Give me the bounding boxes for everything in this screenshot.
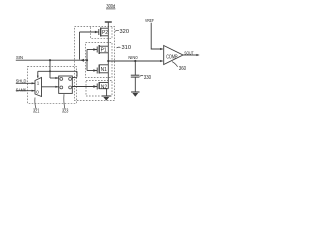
SHLD wire	[16, 82, 35, 84]
SHLD label	[16, 78, 27, 84]
gate tie wire P1-N1	[86, 50, 88, 71]
transistor N1	[93, 65, 108, 74]
svg-text:VREF: VREF	[145, 18, 154, 24]
mux output wire	[42, 86, 59, 88]
label 321	[35, 98, 36, 109]
svg-text:1: 1	[37, 80, 40, 85]
transistor P1	[93, 45, 108, 54]
svg-text:320: 320	[120, 29, 130, 35]
wire NIN0 to comparator	[108, 60, 162, 62]
wire N2 to ground	[106, 89, 108, 96]
wire to latch clock with jog	[76, 71, 78, 76]
wire SIN down to latch D input	[49, 60, 51, 78]
svg-text:NIN0: NIN0	[128, 55, 137, 61]
svg-text:360: 360	[179, 66, 186, 72]
NIN0 label	[128, 55, 137, 61]
capacitor C 330	[134, 61, 136, 75]
label 360	[172, 62, 178, 67]
junction dot SIN/gate tie	[86, 59, 88, 61]
SAMK label	[16, 87, 27, 93]
power supply T bar	[105, 21, 112, 23]
svg-text:P2: P2	[102, 30, 108, 36]
svg-text:P1: P1	[101, 47, 107, 53]
label 330	[140, 75, 144, 78]
figure label 300d	[106, 4, 115, 10]
wire N1 to N2	[107, 73, 109, 83]
junction dot cap	[134, 60, 136, 62]
dashed box P2	[91, 27, 113, 38]
label 323	[63, 94, 66, 108]
ground under capacitor	[131, 92, 139, 96]
VREF label	[145, 18, 154, 24]
junction dot SIN/select	[49, 59, 51, 61]
latch block 323	[59, 76, 73, 93]
svg-text:N1: N1	[101, 67, 107, 73]
svg-text:SOUT: SOUT	[184, 50, 193, 56]
svg-text:323: 323	[62, 109, 68, 115]
transistor N2	[93, 82, 108, 90]
node NIN0 dot	[107, 60, 109, 62]
mux 321	[35, 78, 42, 97]
svg-text:310: 310	[122, 45, 132, 51]
SIN wire	[16, 59, 87, 61]
comparator COMP 360	[164, 46, 183, 65]
ground under N2	[102, 96, 111, 100]
dashed box logic lower-left	[28, 67, 77, 104]
SIN label	[16, 55, 23, 61]
dashed box 310 inverter	[86, 43, 113, 78]
label 310	[117, 46, 121, 49]
wire to mux select	[38, 70, 77, 72]
junction dot select branch	[49, 70, 51, 72]
svg-text:COMP: COMP	[166, 55, 178, 61]
wire P2 gate down	[80, 31, 99, 33]
wire P2 drain to P1	[107, 36, 109, 46]
latch Q2 wire to N2 gate	[72, 86, 97, 88]
transistor P2	[95, 28, 108, 37]
SAMK wire	[16, 90, 35, 92]
wire P1 to node NIN0	[107, 53, 109, 65]
svg-text:330: 330	[144, 75, 151, 81]
dashed box 320 driver stack	[75, 27, 115, 101]
SOUT output wire	[183, 54, 199, 56]
svg-text:0: 0	[36, 90, 39, 95]
label 320	[115, 29, 119, 32]
VREF wire	[151, 23, 162, 49]
dashed box N2	[86, 80, 112, 96]
svg-text:321: 321	[33, 109, 39, 115]
